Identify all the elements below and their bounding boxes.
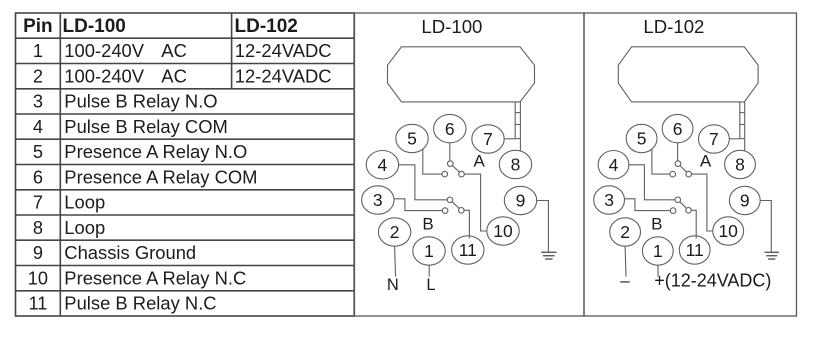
wire bar to pin8 LD-102: [744, 139, 746, 151]
svg-text:B: B: [422, 215, 433, 234]
svg-text:6: 6: [33, 167, 43, 187]
wire pin2 lead LD-102: [624, 246, 627, 276]
svg-text:4: 4: [33, 117, 43, 137]
svg-text:5: 5: [407, 129, 417, 149]
wire relay A to pin10 LD-100: [464, 174, 487, 231]
svg-text:2: 2: [33, 66, 43, 86]
wire pin7 to bar LD-100: [505, 138, 516, 140]
pin 5 LD-100: [396, 124, 428, 152]
pin 6 LD-102: [662, 114, 693, 142]
detector body outline LD-100: [388, 47, 535, 102]
panel border LD-102: [584, 13, 797, 316]
detector body outline LD-102: [618, 47, 758, 102]
relay contact A LD-100: [448, 161, 454, 167]
pin 1 LD-102: [642, 237, 673, 265]
svg-text:LD-100: LD-100: [63, 16, 126, 37]
svg-text:12-24VADC: 12-24VADC: [235, 40, 332, 61]
svg-text:5: 5: [33, 142, 43, 162]
pin 10 LD-102: [713, 217, 744, 245]
svg-text:–: –: [620, 271, 630, 290]
svg-text:6: 6: [445, 119, 455, 139]
svg-text:LD-102: LD-102: [643, 16, 704, 37]
pin 9 LD-102: [729, 186, 760, 214]
wire pin6 to relay A LD-100: [449, 143, 451, 161]
svg-text:Loop: Loop: [64, 192, 105, 213]
svg-text:Presence A Relay N.O: Presence A Relay N.O: [64, 141, 247, 162]
svg-text:+(12-24VADC): +(12-24VADC): [654, 271, 771, 291]
wire pin5 to relay A LD-100: [423, 149, 442, 174]
svg-text:3: 3: [604, 190, 614, 210]
segmented bar LD-102: [739, 102, 741, 139]
svg-text:1: 1: [424, 241, 434, 261]
svg-text:L: L: [426, 276, 435, 294]
svg-text:Presence A Relay COM: Presence A Relay COM: [64, 166, 257, 187]
pin 9 LD-100: [504, 186, 536, 214]
relay contact B LD-100: [447, 197, 453, 203]
svg-text:5: 5: [637, 129, 647, 149]
pin 4 LD-100: [366, 151, 398, 179]
svg-text:B: B: [651, 215, 662, 234]
wire bar to pin8 LD-100: [519, 139, 521, 151]
svg-text:2: 2: [390, 222, 400, 242]
svg-text:Presence A Relay N.C: Presence A Relay N.C: [64, 267, 246, 288]
ground symbol LD-100: [541, 251, 556, 253]
svg-text:Pulse B Relay COM: Pulse B Relay COM: [64, 116, 228, 137]
wire pin2 lead LD-100: [395, 246, 396, 276]
svg-text:A: A: [474, 152, 486, 171]
pin 2 LD-102: [610, 218, 641, 246]
wire pin4 to relay B LD-102: [629, 165, 675, 200]
pin 7 LD-100: [472, 125, 504, 153]
svg-text:7: 7: [709, 129, 719, 149]
svg-text:1: 1: [33, 41, 43, 61]
svg-text:6: 6: [673, 119, 683, 139]
pin 10 LD-100: [487, 217, 519, 245]
svg-text:LD-100: LD-100: [421, 16, 482, 37]
wire pin3 to relay B LD-102: [625, 199, 671, 211]
pin 11 LD-100: [452, 236, 484, 264]
svg-text:8: 8: [735, 155, 745, 175]
wire pin7 to bar LD-102: [730, 138, 740, 140]
wire relay B to pin11 LD-100: [464, 210, 469, 238]
svg-text:2: 2: [620, 222, 630, 242]
svg-text:7: 7: [483, 129, 493, 149]
wire pin4 to relay B LD-100: [399, 165, 448, 200]
svg-text:LD-102: LD-102: [235, 16, 298, 37]
svg-text:Pulse B Relay N.C: Pulse B Relay N.C: [64, 293, 216, 314]
table column line pin: [59, 13, 61, 316]
svg-text:AC: AC: [161, 65, 187, 86]
svg-text:4: 4: [378, 155, 388, 175]
svg-text:9: 9: [740, 191, 750, 211]
pin 11 LD-102: [679, 236, 710, 264]
svg-text:7: 7: [33, 193, 43, 213]
wire pin1 lead LD-102: [657, 265, 659, 276]
svg-text:11: 11: [28, 294, 47, 314]
svg-text:10: 10: [493, 221, 513, 241]
svg-text:11: 11: [686, 240, 704, 260]
svg-text:8: 8: [33, 218, 43, 238]
svg-text:Loop: Loop: [64, 217, 105, 238]
ground symbol LD-102: [765, 251, 779, 253]
svg-text:Pulse B Relay N.O: Pulse B Relay N.O: [64, 91, 217, 112]
svg-text:10: 10: [28, 268, 48, 288]
pin 3 LD-102: [594, 186, 625, 214]
svg-text:Chassis Ground: Chassis Ground: [64, 242, 196, 263]
wire pin9 to ground LD-102: [760, 201, 771, 253]
relay contact A LD-102: [675, 161, 681, 167]
pin 2 LD-100: [378, 218, 410, 246]
svg-text:11: 11: [459, 240, 477, 260]
svg-text:4: 4: [609, 155, 619, 175]
wire relay B to pin11 LD-102: [691, 210, 696, 238]
relay contact B LD-102: [675, 197, 681, 203]
svg-text:3: 3: [373, 190, 383, 210]
pin 8 LD-102: [725, 150, 756, 178]
pin 8 LD-100: [499, 150, 531, 178]
svg-text:A: A: [700, 152, 712, 171]
pin 4 LD-102: [598, 151, 629, 179]
svg-text:100-240V: 100-240V: [64, 65, 144, 86]
table row lines: [16, 37, 355, 39]
svg-text:10: 10: [718, 221, 738, 241]
pin 3 LD-100: [362, 186, 394, 214]
svg-text:Pin: Pin: [23, 16, 53, 37]
svg-text:1: 1: [653, 241, 663, 261]
svg-text:100-240V: 100-240V: [64, 40, 144, 61]
panel border LD-100: [354, 13, 584, 316]
svg-text:9: 9: [516, 191, 526, 211]
segmented bar LD-100: [514, 102, 516, 139]
svg-text:12-24VADC: 12-24VADC: [235, 65, 332, 86]
wire pin1 lead LD-100: [428, 265, 430, 276]
pin 6 LD-100: [434, 114, 466, 142]
wire relay A to pin10 LD-102: [691, 174, 712, 231]
wire pin9 to ground LD-100: [537, 201, 549, 253]
table outer border: [16, 13, 355, 316]
svg-text:3: 3: [33, 92, 43, 112]
wire pin5 to relay A LD-102: [652, 149, 670, 174]
pin 1 LD-100: [413, 237, 445, 265]
pin 5 LD-102: [626, 124, 657, 152]
svg-text:8: 8: [511, 155, 521, 175]
svg-text:N: N: [387, 276, 399, 294]
wire pin3 to relay B LD-100: [394, 199, 442, 211]
wire pin6 to relay A LD-102: [677, 143, 679, 161]
pin 7 LD-102: [699, 125, 730, 153]
svg-text:AC: AC: [161, 40, 187, 61]
table column line LD-102: [231, 13, 233, 89]
svg-text:9: 9: [33, 243, 43, 263]
